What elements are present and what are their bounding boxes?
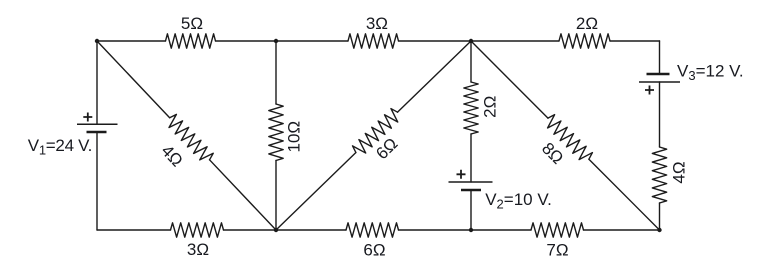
- wire top: resistor 5Ω to node B: [216, 40, 277, 42]
- wire top: resistor 2Ω to top-right corner: [610, 40, 660, 42]
- svg-text:7Ω: 7Ω: [546, 241, 568, 260]
- resistor 10Ω (middle vertical): [269, 104, 283, 161]
- wire right: battery V3 to resistor 4Ω: [659, 82, 661, 147]
- resistor 6Ω (diagonal): [353, 109, 398, 153]
- battery V1 positive plate (long): [77, 123, 118, 125]
- svg-text:V1=24 V.: V1=24 V.: [28, 136, 92, 158]
- svg-text:3Ω: 3Ω: [366, 14, 388, 33]
- resistor 5Ω (top left): [166, 34, 216, 48]
- wire left: node A down to battery V1: [96, 41, 98, 124]
- node D junction dot (bottom middle): [274, 228, 278, 232]
- battery V2 plus sign: [457, 170, 466, 179]
- wire bottom: node E to resistor 7Ω: [471, 229, 531, 231]
- wire: node D diagonal to resistor 6Ω: [276, 153, 356, 230]
- wire: resistor 6Ω diagonal to node C: [398, 41, 471, 112]
- svg-text:3Ω: 3Ω: [187, 240, 209, 259]
- svg-text:5Ω: 5Ω: [181, 14, 203, 33]
- wire top: node A to resistor 5Ω: [97, 40, 166, 42]
- node C junction dot (top right-center): [469, 39, 473, 43]
- wire right: top-right corner down to battery V3: [659, 41, 661, 74]
- resistor 2Ω (top right): [559, 34, 610, 48]
- battery V3 plus sign: [645, 86, 654, 95]
- wire: node C down to resistor 2Ω: [470, 41, 472, 82]
- svg-text:2Ω: 2Ω: [480, 96, 499, 118]
- wire bottom: node D to resistor 6Ω: [276, 229, 346, 231]
- svg-text:V3=12 V.: V3=12 V.: [677, 62, 744, 84]
- svg-text:4Ω: 4Ω: [670, 161, 689, 183]
- wire: resistor 10Ω down to node D: [275, 161, 277, 231]
- resistor 2Ω (vertical): [464, 82, 478, 134]
- svg-text:6Ω: 6Ω: [363, 241, 385, 260]
- battery V1 plus sign: [83, 113, 92, 122]
- svg-text:8Ω: 8Ω: [538, 139, 567, 168]
- wire: resistor 2Ω down to battery V2: [470, 134, 472, 182]
- resistor 3Ω (bottom left): [171, 223, 224, 237]
- svg-text:V2=10 V.: V2=10 V.: [485, 190, 552, 212]
- node A junction dot (top left): [95, 39, 99, 43]
- battery V3 positive plate (long): [639, 81, 680, 83]
- battery V2 positive plate (long): [449, 181, 493, 183]
- wire: battery V2 down to node E: [470, 190, 472, 230]
- resistor 8Ω (diagonal): [548, 115, 593, 160]
- wire left: battery V1 down to bottom-left corner: [96, 132, 98, 230]
- wire right: resistor 4Ω to node F: [659, 203, 661, 230]
- resistor 4Ω (diagonal): [169, 114, 213, 160]
- svg-text:2Ω: 2Ω: [576, 14, 598, 33]
- resistor 4Ω (right vertical): [652, 147, 666, 203]
- wire top: resistor 3Ω to node C: [399, 40, 472, 42]
- wire top: node C to resistor 2Ω: [471, 40, 559, 42]
- node B junction dot (top middle): [274, 39, 278, 43]
- resistor 7Ω (bottom right): [531, 223, 584, 237]
- wire: resistor 4Ω diagonal to node D: [210, 160, 276, 230]
- wire: node B down to resistor 10Ω: [275, 41, 277, 104]
- node E junction dot (bottom right-center): [469, 228, 473, 232]
- battery V1 negative plate (short): [87, 131, 107, 134]
- battery V2 negative plate (short): [461, 189, 481, 192]
- svg-text:4Ω: 4Ω: [157, 141, 186, 170]
- wire bottom: resistor 7Ω to node F: [584, 229, 660, 231]
- wire: resistor 8Ω diagonal to node F: [589, 159, 660, 230]
- resistor 3Ω (top middle): [348, 34, 399, 48]
- wire: node C diagonal to resistor 8Ω: [471, 41, 548, 118]
- node F junction dot (bottom right): [657, 228, 661, 232]
- wire top: node B to resistor 3Ω: [276, 40, 348, 42]
- wire bottom: resistor 3Ω to node D: [224, 229, 277, 231]
- resistor 6Ω (bottom middle): [346, 223, 399, 237]
- wire bottom: bottom-left corner to resistor 3Ω: [97, 229, 171, 231]
- battery V3 negative plate (short): [647, 73, 670, 76]
- svg-text:10Ω: 10Ω: [285, 121, 304, 153]
- wire bottom: resistor 6Ω to node E: [399, 229, 472, 231]
- wire: node A diagonal to resistor 4Ω: [97, 41, 170, 118]
